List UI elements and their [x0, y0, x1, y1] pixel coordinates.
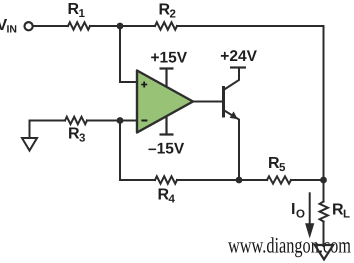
node A junction dot	[117, 23, 124, 30]
svg-text:4: 4	[169, 194, 176, 206]
wire R5 to output node	[291, 179, 324, 181]
wire ground stub to R3	[30, 121, 66, 139]
resistor R4	[155, 176, 177, 183]
svg-text:–15V: –15V	[148, 141, 185, 158]
ground left	[22, 138, 37, 151]
wire R4 to emitter node	[177, 179, 239, 181]
Io arrow	[309, 192, 311, 225]
wire output node down to RL	[323, 180, 325, 202]
wire RL to ground	[323, 222, 325, 247]
svg-text:5: 5	[279, 162, 286, 174]
resistor R2	[155, 22, 177, 29]
transistor Q1	[224, 68, 240, 181]
wire op-amp output to transistor base	[193, 101, 223, 103]
svg-text:IN: IN	[7, 24, 18, 36]
svg-text:+24V: +24V	[220, 48, 257, 65]
resistor R5	[267, 176, 291, 183]
wire R3 to op-amp - input	[87, 120, 137, 122]
op-amp + input symbol	[141, 82, 147, 88]
wire - input node down to bottom rail	[120, 121, 155, 181]
resistor RL	[320, 202, 328, 222]
-15V supply bar	[160, 117, 174, 135]
wire node A down to op-amp + input	[120, 26, 137, 82]
op-amp U1	[137, 71, 193, 133]
transistor emitter arrow	[230, 111, 238, 119]
wire top from input terminal to R1	[33, 25, 68, 27]
node B junction dot (inverting input)	[117, 117, 124, 124]
ground right	[315, 245, 333, 260]
wire R2 to top-right corner and down to output node	[177, 26, 324, 180]
wire R1 to R2	[90, 25, 155, 27]
wire emitter node to R5	[239, 179, 267, 181]
+15V supply bar	[160, 69, 174, 87]
svg-text:L: L	[343, 209, 350, 221]
node C junction dot (emitter)	[236, 177, 243, 184]
resistor R3	[65, 117, 87, 124]
svg-text:O: O	[296, 209, 305, 221]
+24V supply bar	[230, 66, 246, 68]
svg-text:1: 1	[79, 8, 86, 20]
node D junction dot (output)	[320, 177, 327, 184]
svg-text:3: 3	[79, 133, 85, 145]
op-amp - input symbol	[141, 120, 147, 122]
svg-text:2: 2	[170, 9, 176, 21]
resistor R1	[68, 22, 90, 29]
input terminal circle	[25, 22, 33, 30]
svg-text:I: I	[291, 201, 295, 218]
svg-text:+15V: +15V	[151, 49, 188, 66]
